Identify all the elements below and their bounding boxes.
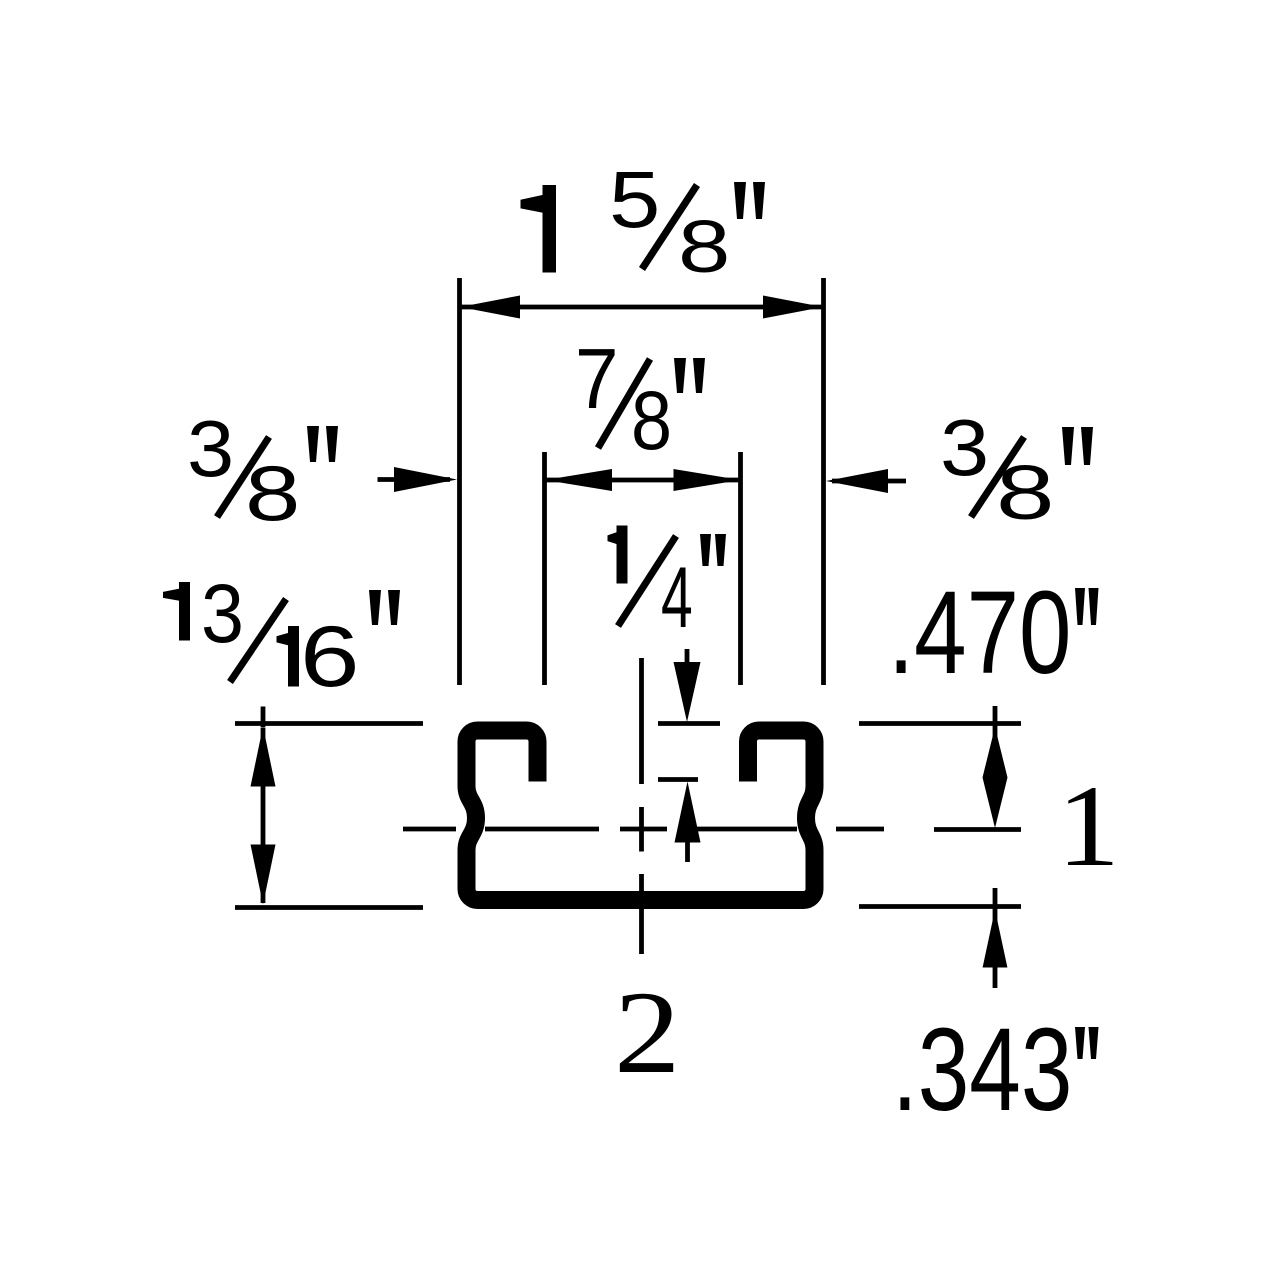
svg-text:3: 3 <box>187 404 234 493</box>
svg-text:.343: .343 <box>892 1003 1072 1135</box>
svg-text:5: 5 <box>609 155 660 244</box>
svg-text:7: 7 <box>575 332 619 427</box>
svg-text:2: 2 <box>614 967 681 1098</box>
svg-text:4: 4 <box>661 550 693 646</box>
svg-text:8: 8 <box>678 205 730 288</box>
svg-text:6: 6 <box>300 609 360 705</box>
svg-text:3: 3 <box>940 403 989 492</box>
svg-text:.470: .470 <box>888 566 1071 698</box>
svg-text:1: 1 <box>1057 762 1120 891</box>
svg-text:3: 3 <box>201 566 244 660</box>
